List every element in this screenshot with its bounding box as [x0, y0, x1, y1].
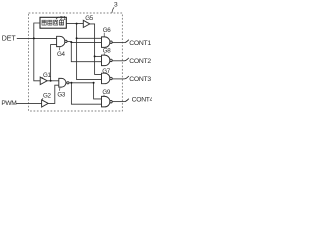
svg-text:3: 3: [114, 2, 118, 9]
svg-text:CONT2: CONT2: [129, 58, 151, 65]
svg-text:21: 21: [60, 16, 66, 22]
svg-text:CONT4: CONT4: [132, 97, 152, 104]
svg-text:G4: G4: [57, 51, 66, 58]
svg-text:CONT3: CONT3: [129, 76, 151, 83]
svg-text:PWM: PWM: [1, 100, 16, 107]
svg-text:G3: G3: [57, 91, 66, 98]
svg-text:G5: G5: [85, 15, 94, 22]
svg-text:CONT1: CONT1: [129, 40, 151, 47]
svg-text:G7: G7: [102, 68, 111, 75]
svg-text:G1: G1: [43, 72, 52, 79]
svg-text:G9: G9: [102, 89, 111, 96]
svg-text:G2: G2: [43, 93, 52, 100]
svg-text:DET: DET: [2, 36, 17, 43]
